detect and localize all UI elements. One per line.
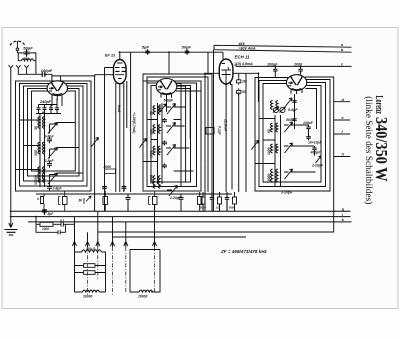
nested box 3 [151, 86, 191, 183]
svg-text:+1,5V(0,7mA): +1,5V(0,7mA) [132, 112, 136, 134]
svg-text:8mA: 8mA [117, 105, 121, 113]
second tall wire [104, 68, 106, 212]
coil 100ohm [82, 250, 102, 252]
wire down [36, 217, 54, 233]
coil 10000 [83, 290, 100, 292]
resistor 1M [237, 78, 241, 85]
coil pair M2 [153, 125, 160, 134]
V5 pins [291, 89, 302, 94]
staircase wires right of V3 [174, 84, 202, 187]
V1 electrodes [52, 84, 63, 91]
trimmer M3 [166, 145, 176, 156]
coil 200 [22, 59, 34, 61]
V2 top pin [119, 52, 121, 59]
svg-text:ECH 11: ECH 11 [235, 55, 251, 60]
variable arrow on right box edge [252, 141, 259, 150]
wire ECH to V5 [236, 64, 352, 101]
wire down at 208 [207, 52, 209, 73]
staircase right of V5 [305, 77, 334, 232]
wire loop right down [35, 61, 37, 71]
antenna fork 3 [24, 65, 28, 71]
svg-text:1000: 1000 [42, 227, 49, 231]
trimmer R3 [284, 143, 293, 153]
capacitor 100pF [42, 72, 47, 77]
V4 bottom pin [226, 82, 232, 192]
anode supply wire vertical [130, 52, 132, 192]
ground arrow [9, 217, 13, 228]
coupling cap box 0,1 [206, 126, 222, 192]
V2 electrodes [115, 63, 126, 79]
svg-text:5000: 5000 [200, 206, 206, 210]
capacitor 400 [312, 146, 316, 156]
cap 3-8pF [47, 137, 52, 144]
wire down to V3 [168, 52, 170, 74]
svg-text:30: 30 [150, 111, 154, 115]
row connect wires [16, 120, 84, 175]
trimmer R4 [284, 169, 293, 179]
wire row mid [98, 232, 334, 237]
svg-text:10000: 10000 [150, 174, 154, 184]
V3 pins [161, 93, 172, 99]
svg-text:(linke Seite des Schaltbildes): (linke Seite des Schaltbildes) [363, 96, 374, 204]
wire down [16, 51, 18, 53]
tall wire right of left box [94, 75, 96, 212]
row connect wires [143, 107, 194, 171]
column wires [275, 115, 281, 186]
nested box 1 [143, 81, 201, 191]
V4 grid line [205, 73, 258, 211]
capacitor 5000 below [292, 117, 296, 122]
capacitor 50 [54, 224, 66, 234]
capacitor 5pF [145, 49, 149, 55]
coil pair R1 [271, 101, 278, 110]
V2 bottom pins [116, 81, 127, 192]
terminal cap 1 [201, 197, 205, 204]
svg-text:2-20pF: 2-20pF [311, 163, 324, 167]
row wires [255, 119, 316, 173]
svg-text:(15) 4,5mA: (15) 4,5mA [235, 62, 254, 66]
node circle [16, 48, 19, 51]
svg-text:5000: 5000 [229, 206, 235, 210]
terminal cap 3 [218, 197, 222, 204]
terminal cap 2 [210, 192, 214, 211]
loop1 wires [75, 252, 106, 292]
svg-text:10000: 10000 [267, 173, 271, 183]
coil pair M4 [153, 176, 160, 189]
coil pair R4 [271, 169, 278, 182]
nested box 3 [24, 86, 84, 181]
comp cap4 [103, 197, 108, 205]
wire grid [47, 74, 94, 81]
svg-text:50pF: 50pF [23, 45, 33, 50]
svg-text:ZF = 468/473/478 kHz: ZF = 468/473/478 kHz [220, 249, 268, 254]
capacitor 50pF [24, 49, 30, 57]
svg-text:10000: 10000 [34, 175, 38, 185]
loop2 wires [130, 250, 160, 293]
comp box8 [198, 197, 203, 205]
svg-text:5pF: 5pF [142, 44, 150, 49]
svg-text:1000: 1000 [150, 150, 154, 158]
wires above arrows [75, 205, 155, 242]
svg-text:10000: 10000 [138, 295, 148, 299]
left rail wire [10, 72, 12, 217]
tube V2 envelope [114, 60, 127, 84]
svg-text:2-20pF: 2-20pF [280, 191, 293, 195]
svg-text:50pF: 50pF [182, 44, 192, 49]
svg-text:30: 30 [34, 126, 38, 130]
coil pair R2 [271, 123, 278, 132]
svg-text:200: 200 [22, 57, 30, 61]
coil pair L1 [38, 117, 45, 129]
variable arrow on wire [92, 138, 99, 147]
wire row [36, 96, 62, 114]
cap column right [306, 125, 310, 140]
svg-text:0,1: 0,1 [216, 206, 220, 210]
antenna fork 2 [16, 65, 20, 71]
bus g [10, 210, 351, 212]
comp box6 [153, 197, 158, 205]
svg-text:≈90V 4mA: ≈90V 4mA [239, 46, 257, 50]
column wires [158, 103, 163, 184]
trimmer under V3 [160, 99, 167, 112]
V1 pin wires [52, 95, 62, 101]
antenna dashed arc [10, 41, 25, 45]
nested box 4 [28, 89, 80, 177]
svg-text:240pF: 240pF [39, 100, 52, 104]
column spine wires [40, 114, 45, 188]
trimmer R1 [284, 98, 292, 108]
nested box 2 [20, 84, 88, 187]
rail wire [36, 193, 232, 195]
svg-text:2-8pF: 2-8pF [52, 187, 63, 191]
svg-text:4: 4 [36, 197, 39, 201]
svg-text:100pF: 100pF [303, 121, 314, 125]
inter-row caps [162, 118, 167, 168]
capacitor on rail [102, 185, 107, 191]
svg-text:50: 50 [242, 90, 246, 94]
trimmer [316, 156, 322, 163]
coil pair L3 [38, 167, 45, 183]
nested box top lid [143, 74, 212, 128]
trimmer circles 5-8pF [273, 107, 278, 112]
variable arrow on middle box edge [140, 139, 147, 148]
coil pair R3 [271, 144, 278, 153]
svg-text:5-8pF: 5-8pF [288, 108, 298, 112]
capacitor [273, 66, 277, 73]
capacitor above [292, 99, 296, 104]
wires down [275, 73, 300, 78]
svg-text:400pF: 400pF [310, 150, 322, 154]
svg-text:1000: 1000 [267, 147, 271, 155]
V5 electrodes [291, 78, 301, 86]
resistor [84, 264, 96, 268]
capacitor [298, 66, 302, 73]
tube V5 envelope [286, 75, 306, 91]
bus i [10, 216, 351, 218]
capacitor 50pF [185, 49, 189, 55]
linkage arrows [73, 242, 157, 248]
trimmer M2 [166, 123, 176, 134]
svg-text:46V: 46V [238, 42, 246, 46]
V2 grid stubs [95, 68, 124, 75]
coil pair M3 [153, 146, 160, 155]
trimmer M4 [167, 186, 178, 197]
resistor 50 [237, 88, 241, 95]
svg-text:100pF: 100pF [267, 63, 278, 67]
wire EF13 anode to ECH11 [120, 52, 224, 59]
tube V4 envelope [219, 59, 233, 84]
antenna fork 1 [9, 65, 13, 71]
wire [208, 128, 212, 193]
bus k [28, 221, 352, 223]
wire [214, 50, 247, 212]
svg-text:a: a [341, 43, 343, 47]
coil pair L2 [38, 142, 45, 154]
tube V3 envelope [156, 79, 177, 95]
nested box right 1 [255, 78, 330, 192]
cap bottom [47, 184, 52, 191]
coil pair M1 [153, 106, 160, 115]
svg-text:60: 60 [267, 129, 271, 133]
stub wires to letters [334, 102, 350, 157]
trimmer M1 [166, 104, 176, 115]
trimmer 1 [48, 123, 58, 134]
svg-text:5-8pF: 5-8pF [164, 98, 174, 102]
svg-text:0,1: 0,1 [60, 219, 65, 223]
V3 electrodes [161, 82, 172, 90]
svg-text:e: e [342, 116, 344, 120]
comp cap7 [179, 194, 184, 211]
capacitor row under V1 [37, 105, 60, 114]
comp elcap [41, 194, 45, 211]
svg-text:5000: 5000 [286, 118, 294, 122]
svg-text:10+10pF: 10+10pF [308, 141, 323, 145]
top bus wires [214, 45, 352, 52]
capacitor 0,1uF [206, 128, 214, 135]
svg-text:10000: 10000 [83, 295, 93, 299]
trimmer 3 [48, 173, 58, 184]
nested box 1 [16, 81, 92, 191]
terminal cap 5 [233, 197, 237, 204]
antenna lead wire [16, 41, 18, 48]
cap 2-8pF [47, 161, 52, 168]
nested box right 3 [263, 84, 321, 183]
wire to grid line [18, 71, 42, 74]
wire to loop [74, 217, 76, 252]
svg-text:4000: 4000 [103, 165, 112, 169]
comp 0Al box [63, 197, 68, 205]
svg-text:EF 13: EF 13 [105, 53, 116, 58]
cap on bus [42, 209, 47, 215]
svg-text:2-8pF: 2-8pF [44, 159, 55, 163]
nested box 5 [32, 91, 76, 171]
svg-text:3-8pF: 3-8pF [45, 135, 55, 139]
resistor 4000 [105, 169, 116, 174]
svg-text:0,1µF: 0,1µF [218, 126, 222, 136]
V4 electrodes [222, 64, 231, 84]
coupling loop wire [17, 53, 36, 61]
trimmer R2 [284, 122, 293, 132]
capacitor 0,1 [53, 222, 75, 227]
tube V1 envelope [47, 81, 67, 96]
nested box right 2 [259, 81, 326, 187]
comp cap5 [126, 194, 131, 211]
svg-text:12,5mA: 12,5mA [224, 119, 228, 132]
terminal cap 4 [225, 192, 229, 211]
resistor 2 [84, 271, 96, 275]
capacitor on pin [122, 185, 127, 191]
coil 10000 b [139, 290, 153, 292]
svg-text:100: 100 [150, 129, 154, 135]
ground symbol [5, 230, 18, 236]
svg-text:100: 100 [34, 150, 38, 156]
wire [294, 94, 296, 129]
resistor 1000 [40, 222, 53, 226]
trimmer 2 [48, 148, 58, 159]
nested box 2 [147, 83, 197, 187]
svg-text:100 Ω: 100 Ω [86, 247, 96, 251]
